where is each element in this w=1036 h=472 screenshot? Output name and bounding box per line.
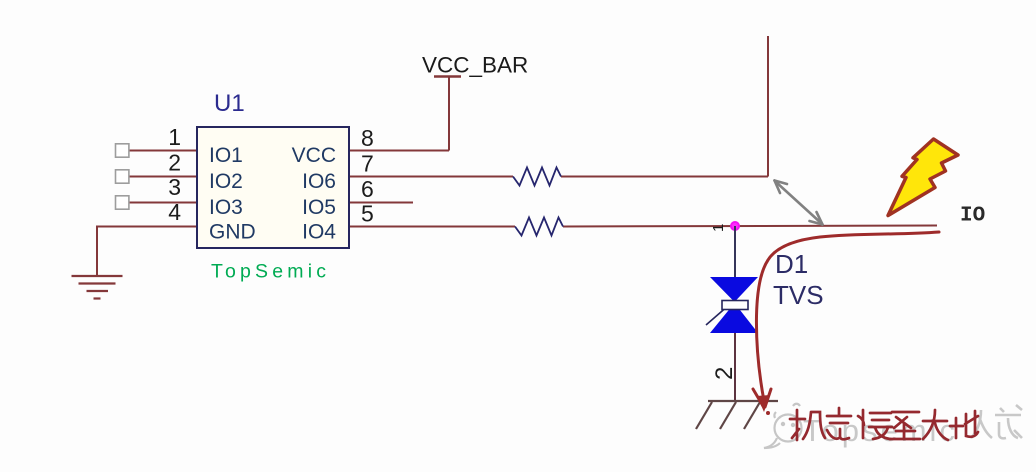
svg-text:3: 3 [168,174,181,200]
svg-text:IO4: IO4 [302,221,336,244]
svg-text:5: 5 [361,201,374,227]
svg-text:7: 7 [361,151,374,177]
svg-text:IO3: IO3 [209,196,243,219]
svg-text:8: 8 [361,125,374,151]
svg-text:2: 2 [168,150,181,176]
svg-text:GND: GND [209,221,256,244]
svg-text:IO: IO [960,205,985,228]
svg-text:TVS: TVS [773,280,824,310]
svg-text:VCC_BAR: VCC_BAR [422,53,528,78]
svg-text:TopSemic: TopSemic [211,261,330,283]
svg-text:IO1: IO1 [209,144,243,167]
svg-text:1: 1 [168,124,181,150]
svg-text:VCC: VCC [292,144,336,167]
svg-text:2: 2 [711,367,738,380]
svg-text:IO5: IO5 [302,196,336,219]
svg-text:IO6: IO6 [302,170,336,193]
svg-text:1: 1 [710,224,727,232]
svg-text:D1: D1 [775,249,808,279]
svg-text:4: 4 [168,199,181,225]
svg-text:IO2: IO2 [209,170,243,193]
svg-text:U1: U1 [214,90,245,117]
svg-text:6: 6 [361,176,374,202]
